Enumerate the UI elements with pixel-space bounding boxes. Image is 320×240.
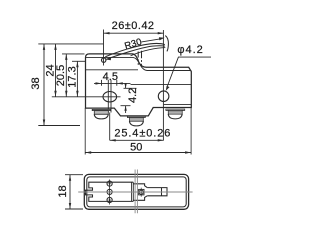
terminal block outline left section: [86, 182, 134, 201]
hinge centerline vertical (26-dim extension): [103, 30, 105, 66]
terminal screw middle (bottom view): [107, 189, 112, 194]
dim 17.3 vertical: [76, 61, 78, 97]
lever lower short line: [131, 48, 166, 56]
right mounting hole: [158, 91, 169, 102]
svg-text:18: 18: [57, 185, 69, 197]
body internal line bottom-right: [164, 103, 192, 105]
dim 4.5 arrowheads: [96, 82, 123, 84]
switch body outline: [86, 54, 192, 116]
terminal screw bottom (bottom view): [107, 197, 112, 202]
R30 leader arrowhead: [159, 37, 165, 40]
lever middle line: [106, 46, 165, 59]
svg-text:17.3: 17.3: [67, 66, 79, 87]
extension line body top (for 20.5): [62, 53, 85, 55]
lever pivot arrowhead: [106, 57, 111, 60]
plunger projection verticals: [135, 170, 137, 214]
phi4.2 leader: [167, 57, 211, 88]
dim 4.5 extension ticks: [102, 80, 117, 86]
pivot circle (bottom view): [139, 190, 143, 194]
dim 38 vertical: [43, 44, 45, 126]
dim 4.2 arrowheads: [124, 83, 126, 110]
25.4 left extension line: [109, 113, 111, 141]
plunger hidden dashes: [138, 59, 141, 65]
internal line left portion: [86, 69, 139, 71]
dim 50 right extension: [190, 108, 192, 155]
svg-text:4.5: 4.5: [103, 71, 118, 83]
dim 24 vertical: [55, 44, 57, 97]
inner case outline: [87, 177, 186, 207]
terminal screws centerline (bottom view): [109, 180, 111, 205]
svg-text:20.5: 20.5: [55, 65, 67, 86]
dim 26±0.42 line: [104, 32, 164, 34]
extension line hinge bottom (for 17.3): [72, 60, 86, 62]
left mounting hole: [103, 92, 117, 102]
terminal block right section bottom: [133, 196, 147, 201]
plunger enclosure (bottom view): [139, 189, 144, 195]
R30 leader line: [142, 39, 161, 42]
dim 4.2 vertical: [125, 83, 127, 113]
pivot vertical tick: [140, 188, 142, 197]
dim 18 vertical: [69, 175, 71, 209]
terminal screw top (bottom view): [107, 181, 112, 186]
phi4.2 leader arrowhead: [166, 86, 170, 91]
dim 4.5 line: [94, 82, 131, 84]
internal line right portion: [131, 84, 192, 86]
lever tip curl: [165, 36, 168, 52]
svg-text:φ4.2: φ4.2: [177, 44, 203, 56]
svg-text:26±0.42: 26±0.42: [112, 20, 155, 32]
middle terminal screw: [127, 116, 145, 126]
lever bar (bottom view): [147, 188, 167, 196]
left hole horizontal centerline: [52, 96, 121, 98]
dim 25.4 line: [110, 139, 164, 141]
left hole vertical lines: [108, 80, 111, 113]
dim 4.2 measuring lines: [121, 88, 137, 105]
terminal block right section top: [133, 184, 147, 188]
svg-text:50: 50: [130, 142, 142, 154]
plunger pin: [138, 51, 141, 58]
svg-text:4.2: 4.2: [127, 88, 139, 103]
hinge pivot circle: [102, 58, 106, 62]
svg-text:38: 38: [30, 77, 42, 89]
lever top line: [105, 43, 165, 56]
dim 18 extensions: [65, 175, 83, 209]
outer case outline: [84, 174, 188, 209]
top extension line (lever tip level): [38, 43, 103, 45]
block inner wall pair: [132, 182, 134, 201]
horizontal centerline (bottom view): [78, 191, 192, 193]
extension line bottom (for 38): [38, 125, 80, 127]
left terminal screw: [92, 109, 110, 119]
dim 50 line: [85, 152, 191, 154]
body lid seam (left raised part): [86, 57, 192, 70]
dim 20.5 vertical: [65, 54, 67, 97]
right extension line (26-dim / 25.4-dim): [162, 30, 164, 140]
svg-text:25.4±0.26: 25.4±0.26: [114, 128, 171, 140]
right terminal screw: [166, 109, 185, 119]
dim 50 left extension: [84, 108, 86, 154]
